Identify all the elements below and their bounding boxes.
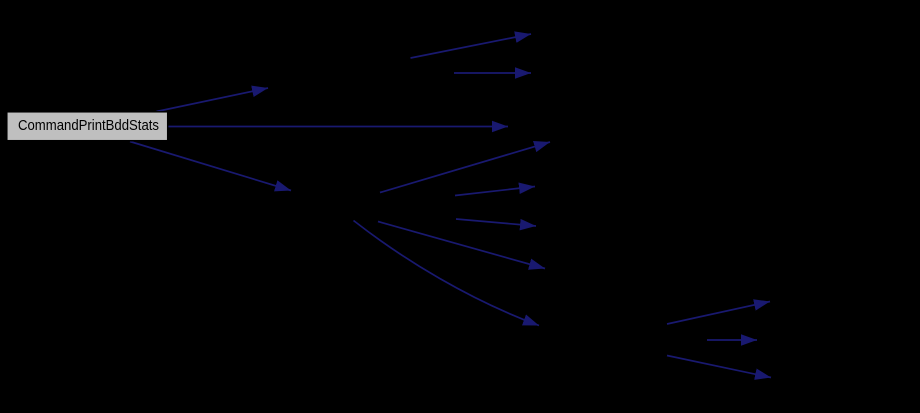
wire edge E7: node M -> node F2 bbox=[455, 187, 535, 196]
wire edge E2: node A -> top node B bbox=[411, 34, 532, 58]
wire edge E11: node L -> node R1 bbox=[667, 302, 770, 325]
wire edge E8: node M -> node F3 bbox=[456, 219, 536, 226]
wire edge E1: CommandPrintBddStats -> node A bbox=[157, 88, 269, 112]
svg-text:CommandPrintBddStats: CommandPrintBddStats bbox=[18, 117, 159, 134]
wire edge E5: CommandPrintBddStats -> node M bbox=[130, 142, 291, 191]
wire edge E13: node L -> node R3 bbox=[667, 356, 771, 378]
wire edge E4: CommandPrintBddStats -> node D (horizontal) bbox=[167, 126, 508, 128]
wire edge E12: node L -> node R2 bbox=[707, 339, 757, 341]
node CommandPrintBddStats (highlighted) bbox=[7, 112, 168, 141]
wire edge E9: node M -> node F4 bbox=[378, 222, 545, 269]
wire edge E6: node M -> node F1 bbox=[380, 142, 550, 193]
wire edge E10: node M -> node L (curved) bbox=[354, 221, 540, 326]
wire edge E3: node A -> node C bbox=[454, 72, 531, 74]
